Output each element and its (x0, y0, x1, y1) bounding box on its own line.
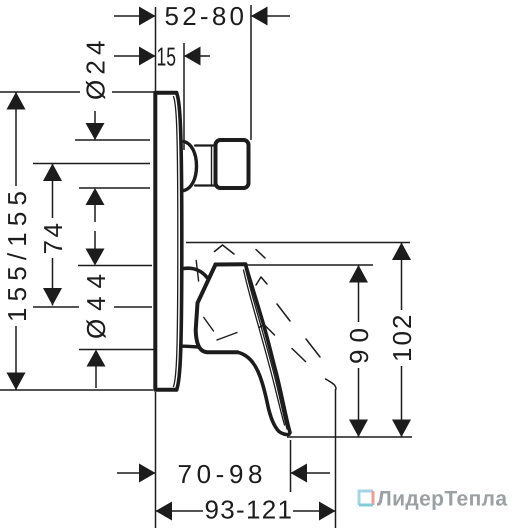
svg-text:Ø24: Ø24 (81, 41, 111, 101)
svg-text:102: 102 (387, 315, 417, 363)
svg-text:93-121: 93-121 (205, 495, 293, 525)
svg-text:ЛидерТепла: ЛидерТепла (377, 488, 507, 511)
svg-text:52-80: 52-80 (165, 1, 245, 31)
svg-text:Ø44: Ø44 (81, 274, 111, 339)
svg-text:15: 15 (157, 42, 177, 72)
svg-text:70-98: 70-98 (178, 459, 263, 489)
